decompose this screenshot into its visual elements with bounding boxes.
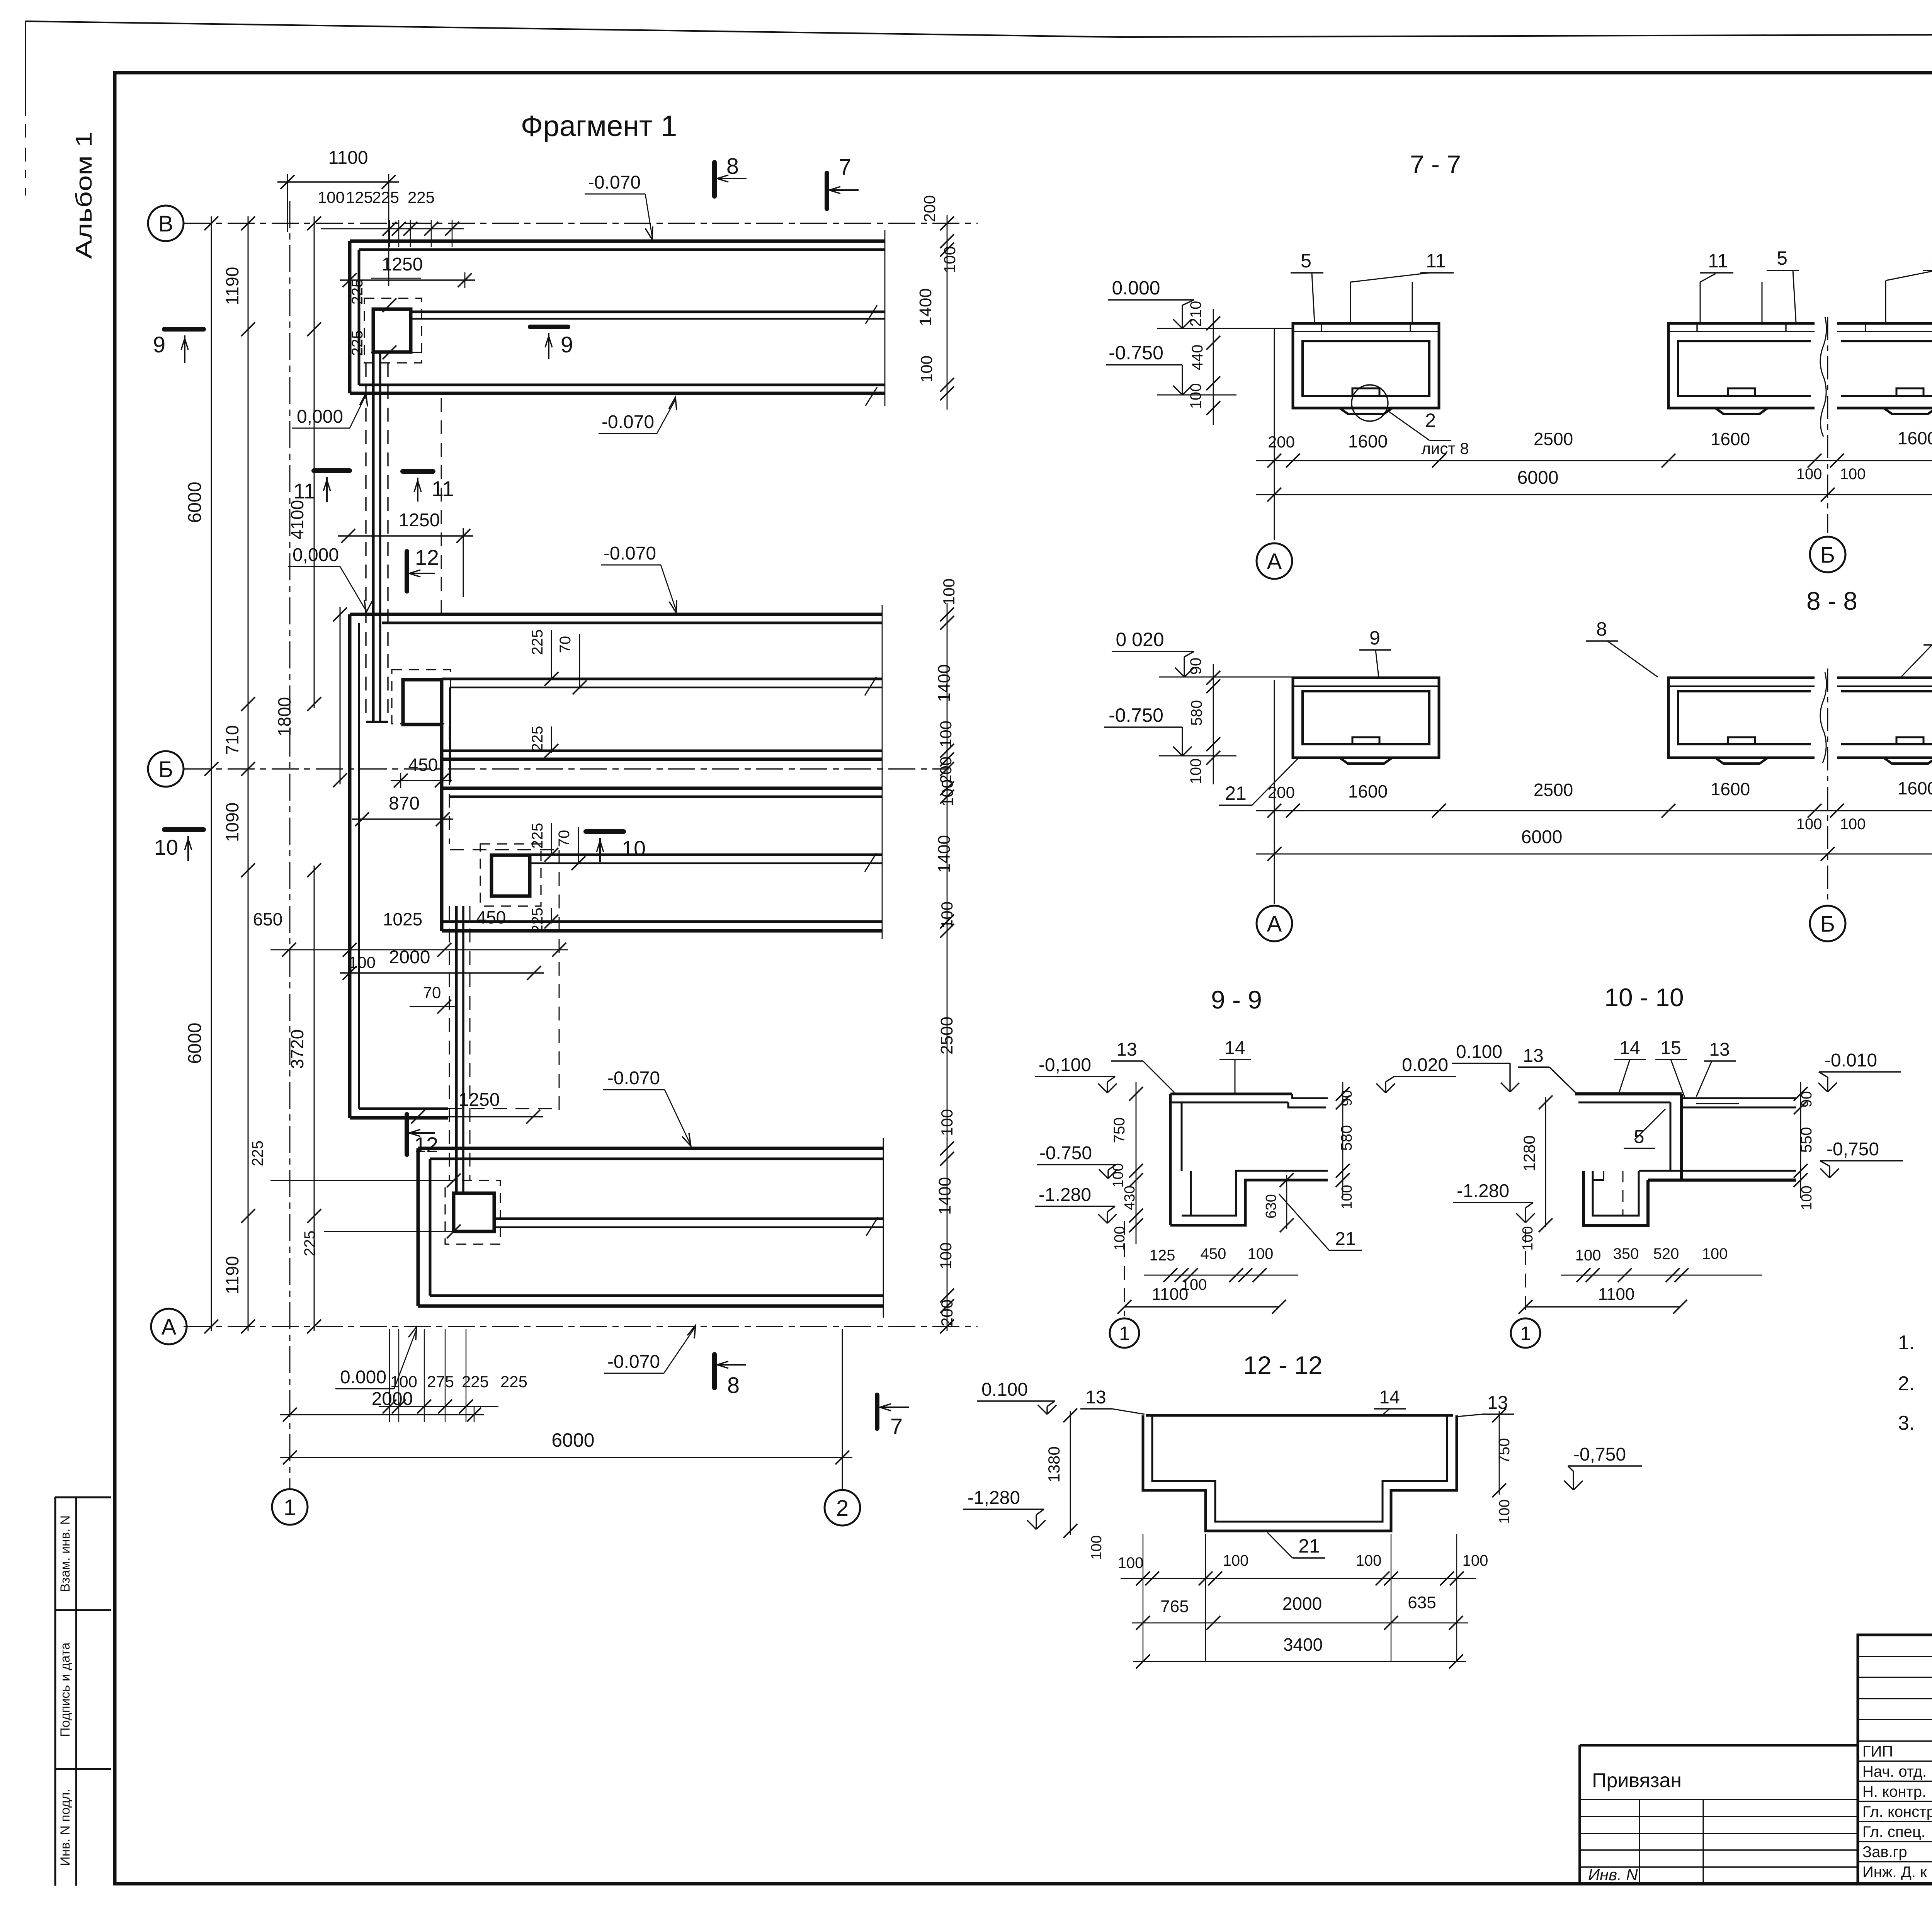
8-8 channel box outline	[1837, 678, 1932, 758]
section flag 7 bottom	[875, 1395, 879, 1429]
svg-text:-0.750: -0.750	[1109, 704, 1163, 726]
svg-text:1800: 1800	[274, 697, 294, 736]
dashed guide x1163	[449, 726, 450, 844]
svg-text:Н. контр.: Н. контр.	[1862, 1783, 1926, 1800]
svg-text:200: 200	[938, 1299, 956, 1327]
8-8 left rotated dims	[1213, 664, 1214, 784]
svg-text:0 020: 0 020	[1116, 629, 1164, 650]
svg-text:Взам. инв. N: Взам. инв. N	[58, 1515, 73, 1592]
svg-text:2500: 2500	[1534, 429, 1573, 449]
svg-text:0.000: 0.000	[1112, 277, 1160, 299]
svg-text:21: 21	[1335, 1229, 1355, 1249]
svg-text:1400: 1400	[935, 664, 954, 702]
svg-text:1190: 1190	[222, 267, 242, 305]
svg-text:550: 550	[1798, 1127, 1815, 1153]
band A cut line right	[884, 230, 886, 406]
svg-text:Б: Б	[1820, 912, 1835, 937]
7-7 axis stems	[1274, 328, 1275, 540]
dim 1250 above band D	[408, 1116, 543, 1117]
8-8 channel box outline	[1293, 678, 1439, 758]
band B flushing slot pair	[442, 678, 882, 680]
dim 870 closure	[352, 818, 453, 820]
band A channel inner top wall line	[359, 248, 885, 251]
8-8 channel box outline	[1668, 678, 1815, 758]
svg-text:1: 1	[1520, 1323, 1531, 1344]
svg-text:100: 100	[349, 953, 376, 971]
svg-text:13: 13	[1523, 1046, 1543, 1066]
svg-text:8: 8	[726, 154, 739, 179]
svg-text:-0.750: -0.750	[1039, 1143, 1092, 1163]
svg-text:100: 100	[1796, 816, 1822, 833]
section flag 12 upper	[405, 551, 409, 591]
svg-text:275: 275	[427, 1372, 454, 1391]
7-7 dim chain line	[1256, 460, 1932, 461]
svg-text:1600: 1600	[1898, 428, 1932, 448]
svg-text:-0.070: -0.070	[607, 1068, 660, 1088]
svg-text:1100: 1100	[1598, 1285, 1635, 1304]
8-8 channel bottom notch	[1352, 737, 1379, 744]
dim chain long subdivision line	[314, 216, 315, 708]
svg-text:14: 14	[1619, 1038, 1640, 1058]
axis 1 vertical	[289, 201, 291, 1489]
section flag 12 lower	[405, 1114, 409, 1155]
svg-text:70: 70	[423, 983, 441, 1002]
12-12 dim 1380 rotated	[1070, 1411, 1071, 1535]
svg-text:15: 15	[1660, 1038, 1681, 1058]
section flag 11 right	[403, 469, 433, 474]
svg-text:0.100: 0.100	[1456, 1042, 1502, 1062]
svg-text:10 - 10: 10 - 10	[1604, 983, 1684, 1012]
svg-text:630: 630	[1263, 1194, 1279, 1218]
channel inner cavity	[1303, 341, 1429, 396]
svg-text:450: 450	[408, 755, 438, 775]
slot A bottom cap	[366, 721, 388, 723]
svg-text:580: 580	[1338, 1125, 1355, 1151]
svg-text:А: А	[1267, 549, 1282, 574]
svg-text:-0,750: -0,750	[1573, 1444, 1626, 1465]
axis B2 (Б) horizontal	[184, 768, 949, 769]
dim 6000 bottom	[280, 1457, 852, 1458]
svg-text:90: 90	[1187, 658, 1204, 675]
section flag 10 right	[586, 829, 624, 834]
band B right break marks	[865, 677, 876, 696]
12-12 dim 3400	[1133, 1661, 1466, 1662]
channel inner cavity	[1678, 341, 1811, 396]
svg-text:ГИП: ГИП	[1862, 1743, 1893, 1760]
svg-text:765: 765	[1160, 1597, 1189, 1616]
vertical slot from pit A down	[372, 352, 375, 722]
svg-text:100: 100	[1799, 1185, 1815, 1210]
12-12 dim 750 rotated right	[1499, 1411, 1500, 1495]
svg-text:Инв. N подл.: Инв. N подл.	[58, 1789, 73, 1866]
svg-text:Фрагмент 1: Фрагмент 1	[521, 110, 677, 143]
8-8 dim chain line	[1256, 810, 1932, 811]
svg-text:870: 870	[389, 793, 420, 814]
dim chain subdivision vertical line	[248, 216, 249, 1331]
svg-text:9 - 9: 9 - 9	[1211, 985, 1262, 1014]
svg-text:14: 14	[1379, 1387, 1400, 1408]
svg-text:1600: 1600	[1348, 431, 1388, 451]
section flag 11 left	[314, 468, 350, 473]
title block label rows	[1858, 1740, 1932, 1742]
8-8 break squiggle	[1820, 672, 1827, 763]
dim 1250 between bands	[338, 535, 473, 537]
svg-text:100: 100	[1223, 1552, 1249, 1569]
svg-text:6000: 6000	[185, 482, 205, 523]
svg-text:225: 225	[462, 1372, 489, 1391]
detail circle on channel 1	[1352, 385, 1388, 421]
svg-text:-1.280: -1.280	[1457, 1181, 1509, 1201]
svg-text:3400: 3400	[1283, 1634, 1323, 1655]
dim chain 100 125 225 225 top	[321, 228, 464, 230]
svg-text:225: 225	[408, 188, 435, 206]
dim chain 6000 vertical line	[211, 216, 212, 1331]
dashed guide x1447	[559, 850, 560, 1116]
svg-text:В: В	[158, 211, 173, 236]
12-12 dims 765 2000 635	[1132, 1622, 1468, 1624]
left margin strip table	[55, 1497, 111, 1498]
8-8 channel bottom notch	[1728, 737, 1755, 744]
9-9 axis bubble 1	[1124, 1221, 1125, 1316]
9-9 structure	[1170, 1093, 1292, 1095]
channel inner cavity	[1841, 341, 1932, 396]
svg-text:0,000: 0,000	[293, 545, 339, 565]
svg-text:14: 14	[1225, 1038, 1245, 1058]
svg-text:225: 225	[249, 1141, 266, 1167]
9-9 pit	[1170, 1180, 1328, 1225]
svg-text:Альбом 1: Альбом 1	[71, 131, 97, 259]
band A channel outer bottom wall line	[350, 392, 885, 395]
band C flushing slot pair	[530, 854, 882, 856]
band D right end dim extension	[947, 1138, 948, 1331]
svg-text:100: 100	[938, 779, 956, 806]
svg-text:225: 225	[301, 1231, 318, 1257]
svg-text:2500: 2500	[1534, 780, 1573, 800]
svg-text:9: 9	[561, 332, 573, 357]
svg-text:10: 10	[622, 836, 646, 861]
section flag 9 in band A	[530, 325, 568, 329]
svg-text:0.020: 0.020	[1402, 1055, 1448, 1075]
svg-text:1400: 1400	[916, 288, 935, 326]
svg-text:450: 450	[476, 907, 506, 927]
svg-text:710: 710	[222, 725, 242, 755]
9-9 bottom dims	[1144, 1275, 1298, 1276]
svg-text:200: 200	[1268, 433, 1295, 451]
10-10 inner dashed	[1622, 1171, 1624, 1216]
svg-text:10: 10	[154, 835, 178, 859]
svg-text:2: 2	[1425, 410, 1436, 431]
svg-text:100: 100	[1575, 1247, 1601, 1264]
svg-text:100: 100	[390, 1372, 417, 1391]
svg-text:100: 100	[1187, 383, 1204, 409]
band D right break marks	[866, 1217, 878, 1236]
10-10 slab step and thin cover	[1682, 1097, 1796, 1099]
svg-text:Зав.гр: Зав.гр	[1862, 1844, 1907, 1861]
svg-text:-0.750: -0.750	[1109, 342, 1163, 364]
8-8 axis bubble B2	[1810, 906, 1845, 941]
band C top wall from closure	[442, 787, 882, 790]
svg-text:1400: 1400	[935, 835, 954, 873]
7-7 axis bubble B2	[1810, 537, 1845, 572]
band D cut line right	[883, 1138, 884, 1318]
svg-text:200: 200	[1268, 783, 1295, 801]
svg-text:1190: 1190	[222, 1256, 242, 1294]
band A flushing slot pair	[411, 311, 885, 313]
svg-text:225: 225	[349, 330, 366, 356]
band C inner bottom line	[442, 920, 882, 923]
svg-text:1100: 1100	[328, 148, 368, 168]
left closure bottom	[350, 1116, 448, 1120]
svg-text:1600: 1600	[1711, 779, 1750, 799]
axis 2 vertical	[842, 1329, 843, 1490]
svg-text:1600: 1600	[1348, 781, 1388, 801]
svg-text:225: 225	[372, 188, 399, 206]
band D outer bottom line	[418, 1304, 883, 1308]
svg-text:1100: 1100	[1152, 1285, 1189, 1304]
svg-text:21: 21	[1298, 1535, 1320, 1557]
svg-text:11: 11	[1708, 250, 1728, 272]
svg-text:70: 70	[557, 636, 574, 653]
8-8 channel inner cavity	[1678, 691, 1811, 744]
svg-text:2000: 2000	[372, 1389, 413, 1409]
svg-text:6000: 6000	[185, 1023, 205, 1064]
svg-text:100: 100	[1187, 759, 1204, 784]
svg-text:1025: 1025	[383, 909, 422, 929]
10-10 right rotated dims	[1800, 1082, 1801, 1198]
8-8 axis stems	[1274, 680, 1275, 904]
8-8 channel bottom notch	[1896, 737, 1923, 744]
svg-text:225: 225	[529, 823, 546, 849]
leader 2 list 8	[1387, 410, 1430, 440]
svg-text:90: 90	[1799, 1091, 1815, 1107]
svg-text:1600: 1600	[1898, 778, 1932, 798]
svg-text:13: 13	[1709, 1039, 1730, 1060]
svg-text:5: 5	[1634, 1127, 1645, 1147]
svg-text:5: 5	[1301, 250, 1311, 272]
band B closure wall vertical 450	[440, 724, 444, 792]
band A right end dim extension	[947, 215, 948, 410]
dashed guides beside slot CD	[449, 906, 450, 1180]
pit C dashed outline	[480, 844, 541, 906]
svg-text:100: 100	[937, 721, 955, 748]
svg-text:100: 100	[1840, 466, 1866, 483]
svg-text:1090: 1090	[222, 803, 242, 842]
dim chain 100 275 225 225 bottom	[379, 1406, 498, 1407]
svg-text:125: 125	[1150, 1247, 1175, 1264]
band B C cut line right	[882, 605, 883, 939]
svg-text:2: 2	[836, 1496, 849, 1521]
svg-text:100: 100	[1118, 1554, 1144, 1571]
svg-text:225: 225	[529, 908, 546, 934]
svg-text:7: 7	[839, 155, 851, 180]
svg-text:100: 100	[937, 1242, 955, 1269]
svg-text:13: 13	[1085, 1387, 1106, 1408]
pit D dashed outline	[445, 1180, 500, 1244]
dashed horizontal y2199	[450, 849, 559, 850]
12-12 outer profile	[1143, 1415, 1457, 1531]
svg-text:430: 430	[1122, 1185, 1138, 1210]
svg-text:Б: Б	[1820, 543, 1835, 568]
svg-text:11: 11	[432, 476, 454, 501]
svg-text:200: 200	[920, 195, 939, 222]
sheet left edge (scan)	[25, 21, 26, 116]
svg-text:100: 100	[1840, 816, 1866, 833]
sheet top edge (scan)	[26, 21, 1121, 37]
band D left wall	[417, 1148, 420, 1306]
svg-text:6000: 6000	[1517, 468, 1559, 488]
12-12 wall thickness dims	[1121, 1578, 1476, 1579]
pit B dashed outline	[392, 670, 451, 724]
section flag 8 top	[712, 162, 717, 196]
break squiggle at B2	[1820, 317, 1827, 437]
svg-text:210: 210	[1187, 301, 1204, 327]
svg-text:12: 12	[415, 545, 439, 570]
svg-text:1250: 1250	[382, 254, 423, 275]
channel bottom notch	[1728, 388, 1755, 396]
axis A horizontal	[184, 1326, 978, 1327]
band B inner top wall line	[382, 622, 882, 624]
dim 1800 vertical	[340, 607, 341, 784]
svg-text:100: 100	[940, 578, 958, 605]
svg-text:100: 100	[1110, 1163, 1126, 1187]
pit B solid box	[403, 680, 442, 724]
svg-text:225: 225	[529, 726, 546, 752]
svg-text:0.000: 0.000	[340, 1367, 386, 1388]
svg-text:8: 8	[727, 1373, 740, 1398]
dashed guides beside slot A	[365, 363, 366, 719]
svg-text:0.100: 0.100	[981, 1379, 1028, 1400]
band B inner bottom wall line	[442, 750, 882, 752]
8-8 level lines	[1159, 677, 1293, 678]
svg-text:11: 11	[1930, 248, 1932, 269]
svg-text:12 - 12: 12 - 12	[1243, 1351, 1322, 1379]
svg-text:100: 100	[1702, 1245, 1728, 1262]
pit A dashed outline	[364, 298, 422, 363]
svg-text:580: 580	[1188, 700, 1205, 726]
svg-text:1: 1	[284, 1495, 296, 1520]
svg-text:2000: 2000	[1282, 1594, 1322, 1614]
9-9 floor hatch step	[1190, 1171, 1192, 1216]
vertical slot between pit C and pit D	[455, 906, 458, 1193]
svg-text:11: 11	[293, 479, 316, 503]
7-7 axis bubble A	[1257, 543, 1292, 579]
svg-text:350: 350	[1613, 1245, 1639, 1262]
10-10 axis bubble 1	[1525, 1229, 1526, 1316]
dim 2000 bottom	[280, 1414, 484, 1415]
svg-text:1380: 1380	[1045, 1446, 1063, 1482]
svg-text:635: 635	[1408, 1593, 1436, 1612]
svg-text:9: 9	[153, 332, 165, 357]
10-10 dim 1280 rotated	[1545, 1097, 1546, 1227]
dim chain 650 1025 450 row	[270, 949, 568, 951]
channel box outline	[1837, 323, 1932, 408]
10-10 pit	[1583, 1171, 1648, 1225]
svg-text:125: 125	[346, 188, 373, 206]
7-7 left rotated dims	[1213, 309, 1214, 425]
svg-text:100: 100	[1339, 1185, 1355, 1209]
svg-text:100: 100	[1796, 466, 1822, 483]
svg-text:11: 11	[1426, 250, 1446, 272]
10-10 pit notch	[1593, 1171, 1604, 1180]
8-8 channel inner cavity	[1303, 691, 1429, 744]
9-9 left rotated dims	[1136, 1082, 1137, 1244]
title block left extension box	[1580, 1745, 1858, 1884]
band B outer bottom wall line	[442, 758, 882, 761]
pit C solid box	[492, 855, 530, 896]
svg-text:450: 450	[1201, 1245, 1226, 1262]
12-12 inner profile	[1152, 1415, 1447, 1522]
svg-text:225: 225	[349, 279, 366, 305]
svg-text:-0,100: -0,100	[1039, 1055, 1091, 1075]
svg-text:100: 100	[1497, 1499, 1513, 1524]
svg-text:1250: 1250	[459, 1090, 500, 1110]
svg-text:Инв. N: Инв. N	[1588, 1866, 1638, 1884]
svg-text:750: 750	[1111, 1117, 1128, 1143]
band D outer top line	[418, 1147, 883, 1150]
8-8 channel inner cavity	[1841, 691, 1932, 744]
band C outer bottom line	[442, 929, 882, 933]
left extension rows	[1580, 1799, 1858, 1800]
svg-text:100: 100	[1112, 1226, 1128, 1250]
svg-text:3720: 3720	[287, 1029, 307, 1069]
svg-text:7 - 7: 7 - 7	[1410, 150, 1461, 179]
svg-text:100: 100	[1463, 1552, 1488, 1569]
svg-text:8 - 8: 8 - 8	[1806, 587, 1857, 615]
svg-text:100: 100	[1356, 1552, 1382, 1569]
svg-text:100: 100	[1520, 1226, 1536, 1250]
svg-text:100: 100	[318, 188, 345, 206]
svg-text:100: 100	[1088, 1535, 1105, 1560]
band B outer top wall line	[350, 613, 882, 616]
channel bottom notch	[1896, 388, 1923, 396]
svg-text:70: 70	[556, 830, 573, 847]
svg-text:Подпись и дата: Подпись и дата	[58, 1643, 73, 1737]
channel box outline	[1293, 323, 1439, 408]
svg-text:2000: 2000	[389, 947, 430, 968]
svg-text:1280: 1280	[1520, 1135, 1538, 1171]
svg-text:100: 100	[917, 355, 935, 383]
band A channel outer top wall line	[350, 240, 885, 243]
12-12 top edge	[1146, 1414, 1453, 1417]
dim 450 closure	[391, 780, 452, 781]
9-9 right rotated dims	[1342, 1082, 1344, 1198]
svg-text:-0.070: -0.070	[588, 172, 641, 193]
svg-text:650: 650	[253, 909, 283, 929]
band A channel inner bottom wall line	[359, 384, 885, 386]
band C right break marks	[865, 853, 876, 872]
svg-text:-1,280: -1,280	[968, 1488, 1020, 1508]
svg-text:3.: 3.	[1898, 1412, 1915, 1434]
svg-text:225: 225	[500, 1372, 527, 1391]
svg-text:Б: Б	[158, 757, 173, 782]
svg-text:Инж. Д. к: Инж. Д. к	[1862, 1864, 1927, 1881]
title block top thin rows	[1858, 1656, 1932, 1657]
svg-text:-0,750: -0,750	[1827, 1139, 1879, 1160]
svg-text:100: 100	[940, 246, 959, 273]
dim 1100 top	[277, 181, 399, 183]
svg-text:21: 21	[1225, 782, 1247, 804]
svg-text:-0.070: -0.070	[607, 1352, 660, 1372]
dashed guide x1142	[441, 398, 442, 614]
band C left closure vertical	[440, 792, 444, 931]
svg-text:750: 750	[1496, 1438, 1513, 1464]
svg-text:2.: 2.	[1898, 1372, 1915, 1395]
svg-text:5: 5	[1777, 247, 1787, 269]
svg-text:-0.070: -0.070	[604, 543, 656, 564]
8-8 axis bubble A	[1257, 906, 1292, 941]
band A right break marks	[866, 305, 877, 324]
svg-text:225: 225	[529, 629, 546, 655]
